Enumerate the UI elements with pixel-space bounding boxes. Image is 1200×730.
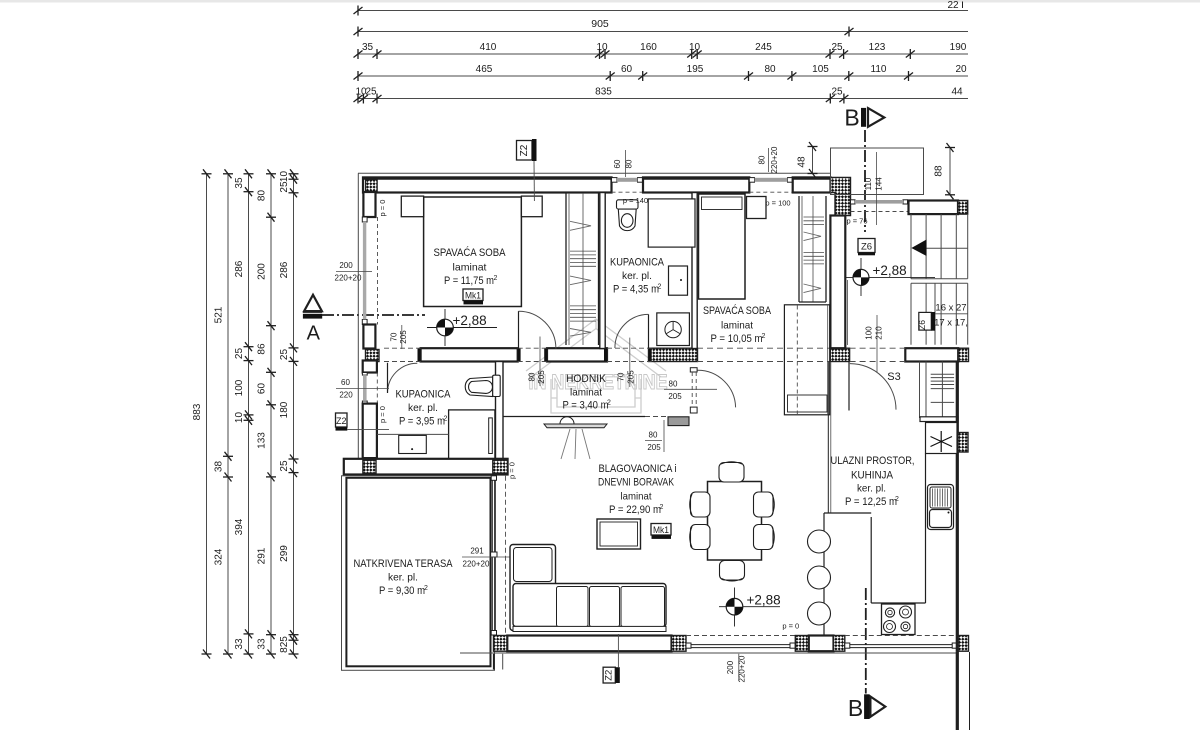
ticks row 2 — [354, 27, 363, 37]
terrace SE corner — [493, 654, 495, 670]
svg-text:60: 60 — [257, 383, 268, 395]
svg-text:p = 140: p = 140 — [623, 196, 648, 205]
svg-text:NATKRIVENA TERASA: NATKRIVENA TERASA — [354, 558, 454, 570]
window bedroom2 top — [749, 178, 792, 193]
svg-text:60: 60 — [621, 64, 633, 75]
stairwell verticals lower — [910, 283, 912, 344]
hatch east boiler — [958, 433, 968, 453]
svg-text:2: 2 — [895, 496, 899, 503]
window bathroom1 top — [612, 178, 644, 193]
closet entry — [784, 305, 829, 415]
dining chair left1 — [691, 492, 711, 517]
section marker B top — [844, 105, 884, 131]
svg-text:KUHINJA: KUHINJA — [851, 470, 894, 482]
hatch terrace wall W — [363, 460, 376, 473]
dim 200 220+20 south — [738, 654, 740, 681]
svg-text:180: 180 — [279, 401, 290, 418]
level marker bedroom1 — [427, 309, 497, 346]
toilet bathroom2 — [465, 375, 500, 396]
svg-text:10: 10 — [234, 412, 245, 424]
svg-text:200: 200 — [339, 261, 353, 270]
door jambs wall B — [418, 349, 652, 362]
svg-text:2: 2 — [660, 504, 664, 511]
hatch terrace wall E — [493, 460, 508, 473]
svg-text:394: 394 — [234, 518, 245, 535]
watermark house logo — [526, 319, 666, 413]
wall B segment stairwell — [905, 348, 958, 361]
ticks row 5 — [354, 94, 363, 104]
level marker stairs — [845, 258, 935, 296]
svg-text:2: 2 — [607, 400, 611, 407]
svg-text:33: 33 — [257, 638, 268, 650]
svg-text:324: 324 — [214, 548, 225, 565]
dining chair top — [719, 463, 744, 483]
window living south — [686, 643, 691, 648]
ticks row 4 — [354, 71, 363, 81]
window entry north — [851, 200, 908, 212]
ticks left line 5 — [289, 169, 299, 178]
wall west upper block — [363, 192, 375, 217]
door bathroom1 — [615, 314, 649, 348]
hatch entry north — [958, 201, 968, 215]
svg-text:883: 883 — [192, 403, 203, 420]
top dimension line row 3 — [358, 53, 969, 55]
svg-text:p = 76: p = 76 — [846, 217, 867, 226]
bar stool 1 — [808, 530, 831, 553]
stair below treads — [931, 373, 954, 375]
svg-text:Z2: Z2 — [519, 144, 530, 156]
outer face line top — [358, 172, 831, 174]
sink bathroom1 — [669, 266, 688, 295]
wall B segment bedroom1 — [421, 348, 518, 361]
svg-text:123: 123 — [869, 42, 886, 53]
svg-text:110: 110 — [864, 177, 873, 190]
svg-text:220+20: 220+20 — [463, 560, 490, 569]
window bathroom2 west — [362, 373, 377, 404]
wall B dashes entry door — [850, 347, 906, 349]
section line A — [322, 314, 425, 316]
ticks row 1 — [354, 6, 363, 16]
sink bathroom2 — [399, 435, 427, 453]
label Z2 top — [517, 141, 533, 161]
svg-text:p = 0: p = 0 — [378, 406, 387, 423]
svg-text:80: 80 — [758, 155, 767, 164]
svg-text:16 x 27: 16 x 27 — [935, 303, 966, 314]
shower bathroom2 — [449, 410, 495, 459]
bed bedroom2 — [699, 194, 746, 299]
stair landing lines — [911, 278, 968, 280]
svg-text:p = 100: p = 100 — [765, 199, 790, 208]
dining chair left2 — [691, 525, 711, 550]
opening line hodnik-living — [503, 416, 645, 418]
wall lines below south — [956, 651, 959, 730]
svg-text:35: 35 — [234, 177, 245, 189]
svg-text:35: 35 — [362, 42, 374, 53]
svg-text:S3: S3 — [887, 371, 900, 383]
dim 60 80 bathroom window — [625, 150, 627, 177]
svg-text:Z6: Z6 — [861, 242, 872, 253]
hatch wall B stairwell E — [958, 348, 968, 361]
window bedroom1 west — [362, 217, 377, 325]
svg-text:Z2: Z2 — [604, 670, 615, 681]
wall S hatch c — [795, 636, 809, 652]
partition bedroom1-bathroom1 — [600, 193, 605, 349]
stair arrow tail — [926, 247, 968, 249]
stair below verticals — [919, 362, 921, 419]
left dimension line 5 — [293, 174, 295, 654]
nightstand right — [521, 196, 542, 217]
closet bedroom2 — [798, 196, 800, 302]
svg-text:laminat: laminat — [453, 262, 487, 274]
svg-text:KUPAONICA: KUPAONICA — [610, 257, 665, 269]
dim 80 205 stub — [663, 420, 665, 452]
svg-text:291: 291 — [470, 547, 484, 556]
svg-text:laminat: laminat — [570, 387, 602, 399]
svg-text:60: 60 — [613, 159, 622, 168]
svg-text:ker. pl.: ker. pl. — [388, 572, 418, 584]
wall S hatch d — [834, 636, 845, 652]
top dimension line row 4 — [358, 75, 969, 77]
svg-text:P = 12,25 m: P = 12,25 m — [845, 496, 897, 508]
label Z2 bottom — [617, 634, 619, 667]
wall top segment west — [363, 177, 612, 192]
nightstand bedroom2 — [747, 197, 767, 219]
top dimension line row 5 — [358, 98, 969, 100]
outer face line south — [460, 652, 957, 654]
wall entry north segment — [909, 201, 959, 215]
svg-text:BLAGOVAONICA i: BLAGOVAONICA i — [599, 463, 677, 475]
svg-text:P = 22,90 m: P = 22,90 m — [609, 504, 661, 516]
svg-text:Z6: Z6 — [917, 320, 927, 330]
svg-text:80: 80 — [764, 64, 776, 75]
wall stub hodnik — [668, 417, 689, 426]
svg-text:220+20: 220+20 — [770, 146, 779, 173]
door bedroom1 — [519, 311, 556, 348]
svg-text:825: 825 — [279, 636, 290, 653]
svg-text:Mk1: Mk1 — [653, 525, 669, 536]
svg-text:SPAVAĆA SOBA: SPAVAĆA SOBA — [703, 304, 772, 317]
wall west mid block — [363, 325, 375, 349]
svg-text:220: 220 — [339, 391, 353, 400]
svg-text:DNEVNI BORAVAK: DNEVNI BORAVAK — [598, 477, 675, 489]
label Z6 stairs — [919, 312, 932, 330]
svg-text:p = 0: p = 0 — [508, 462, 517, 479]
svg-text:25: 25 — [279, 460, 290, 472]
svg-text:Z2: Z2 — [336, 416, 347, 426]
bar stool 3 — [808, 602, 831, 625]
svg-text:B: B — [844, 105, 859, 131]
ticks left line 2 — [223, 169, 233, 178]
svg-text:80: 80 — [669, 380, 678, 389]
svg-text:P = 3,95 m: P = 3,95 m — [399, 416, 445, 428]
entry door — [848, 362, 850, 411]
svg-text:835: 835 — [595, 87, 612, 98]
left dimension line 4 — [270, 174, 272, 654]
sofa chaise — [510, 545, 556, 631]
bed bedroom1 — [424, 197, 522, 307]
svg-text:299: 299 — [279, 545, 290, 562]
svg-text:86: 86 — [257, 343, 268, 355]
wall S segment living — [507, 636, 671, 652]
wall top thick border — [363, 177, 612, 180]
svg-text:70: 70 — [390, 332, 399, 341]
svg-text:P = 4,35 m: P = 4,35 m — [613, 284, 659, 296]
svg-text:p = 0: p = 0 — [378, 200, 387, 217]
wall S segment mid — [809, 636, 834, 652]
wall bedroom2-entry — [830, 216, 845, 349]
svg-text:80: 80 — [625, 159, 634, 168]
svg-text:80: 80 — [257, 190, 268, 202]
svg-text:+2,88: +2,88 — [873, 263, 907, 278]
svg-text:465: 465 — [476, 64, 493, 75]
terrace outline — [342, 476, 495, 671]
svg-text:Mk1: Mk1 — [465, 291, 481, 302]
sofa seats — [513, 584, 666, 627]
dim 70 205 hodnik e — [629, 338, 631, 387]
closet bedroom1 — [565, 193, 567, 345]
svg-text:105: 105 — [812, 64, 829, 75]
svg-text:2: 2 — [762, 333, 766, 340]
hatch west at wallB — [366, 350, 380, 362]
stair arrow head — [911, 240, 926, 257]
svg-text:25: 25 — [365, 87, 377, 98]
dim 80 205 hodnik w — [539, 337, 541, 387]
section line B lower — [865, 588, 867, 694]
wall B dashes door openings — [384, 347, 421, 349]
svg-text:2: 2 — [444, 416, 448, 423]
dim 70 205 door1 — [401, 325, 403, 349]
terrace north wall — [344, 459, 508, 475]
svg-text:190: 190 — [950, 42, 967, 53]
kitchen counter — [925, 454, 927, 604]
svg-text:ker. pl.: ker. pl. — [857, 483, 886, 495]
dining chair bottom — [720, 561, 745, 581]
svg-text:220+20: 220+20 — [738, 655, 747, 682]
outer face line left — [357, 173, 359, 459]
svg-text:110: 110 — [871, 64, 887, 75]
wall west lower block — [363, 404, 377, 459]
svg-text:P = 11,75 m: P = 11,75 m — [444, 275, 494, 287]
washing machine bathroom1 — [657, 313, 690, 346]
svg-text:60: 60 — [341, 378, 350, 387]
dining chair right1 — [754, 492, 774, 517]
label Mk1 living — [651, 524, 671, 536]
dining chair right2 — [754, 525, 774, 550]
svg-text:22: 22 — [947, 0, 959, 11]
wall top segment mid — [643, 177, 749, 192]
svg-text:205: 205 — [537, 370, 546, 384]
door bathroom2 — [388, 363, 418, 393]
label Z6 top — [858, 239, 875, 253]
nightstand left — [401, 196, 423, 217]
svg-text:286: 286 — [234, 260, 245, 277]
svg-text:100: 100 — [234, 379, 245, 396]
top dimension line row 1 — [358, 10, 969, 12]
svg-text:2: 2 — [658, 284, 662, 291]
boundary entry-dining — [827, 362, 829, 513]
hatch wall B entry — [830, 348, 849, 361]
stairwell verticals upper — [910, 214, 912, 279]
svg-text:10: 10 — [596, 42, 608, 53]
wall west bathroom2 block — [363, 361, 377, 373]
svg-text:p = 0: p = 0 — [782, 622, 799, 631]
svg-text:200: 200 — [726, 660, 735, 674]
svg-text:291: 291 — [257, 547, 268, 564]
svg-text:44: 44 — [951, 87, 963, 98]
svg-text:ker. pl.: ker. pl. — [408, 402, 438, 414]
svg-text:286: 286 — [279, 261, 290, 278]
coffee table — [597, 519, 641, 549]
wall top segment east — [793, 177, 831, 192]
stair bottom step bar — [920, 417, 958, 422]
svg-text:25: 25 — [279, 349, 290, 361]
canopy outline — [831, 148, 924, 195]
hatch wall B bath1 — [649, 348, 698, 361]
left dimension line 1 — [206, 174, 208, 654]
dim 100 210 entry — [876, 315, 878, 372]
left dimension line 2 — [227, 174, 229, 654]
svg-text:10: 10 — [689, 42, 701, 53]
svg-text:144: 144 — [875, 177, 884, 191]
svg-text:195: 195 — [687, 64, 704, 75]
left dimension line 3 — [248, 174, 250, 654]
svg-text:88: 88 — [934, 165, 945, 177]
svg-text:205: 205 — [399, 330, 408, 344]
ticks row 3 — [354, 49, 363, 59]
label Mk1 bedroom — [463, 289, 483, 301]
svg-text:38: 38 — [214, 461, 225, 473]
wall east kitchen — [956, 362, 959, 652]
dim 88 vertical — [949, 148, 951, 195]
svg-text:A: A — [307, 323, 321, 345]
level marker living — [719, 588, 780, 627]
sofa back bar — [513, 626, 666, 631]
svg-text:205: 205 — [627, 370, 636, 384]
svg-text:25: 25 — [234, 348, 245, 360]
kitchen sink — [928, 485, 954, 530]
section marker B bottom — [848, 694, 885, 721]
wall B segment mid — [547, 348, 607, 361]
dining table — [708, 482, 762, 561]
svg-text:2: 2 — [424, 585, 428, 592]
dim 110 144 labels — [876, 152, 878, 225]
top dimension line row 2 — [358, 31, 969, 33]
shower bathroom1 — [648, 199, 695, 247]
section line B upper — [864, 130, 866, 232]
door bedroom2 — [690, 368, 697, 372]
svg-text:laminat: laminat — [621, 491, 652, 503]
corner block NE — [831, 177, 851, 215]
svg-text:laminat: laminat — [721, 320, 753, 332]
boiler — [926, 423, 958, 454]
svg-text:KUPAONICA: KUPAONICA — [396, 389, 452, 401]
svg-text:80: 80 — [649, 431, 658, 440]
svg-text:25: 25 — [831, 87, 843, 98]
window kitchen south — [845, 643, 850, 648]
svg-text:25: 25 — [279, 181, 290, 193]
svg-text:410: 410 — [480, 42, 497, 53]
svg-text:2: 2 — [494, 275, 498, 282]
svg-text:210: 210 — [875, 326, 884, 340]
svg-text:905: 905 — [591, 18, 609, 30]
bar stool 2 — [808, 566, 831, 589]
section marker A — [303, 295, 322, 345]
stove — [882, 604, 916, 635]
svg-text:48: 48 — [797, 156, 808, 168]
wall bathroom2-hodnik — [496, 362, 504, 460]
ticks left line 1 — [202, 169, 212, 178]
svg-text:133: 133 — [257, 432, 268, 449]
hatch corner NW — [366, 180, 378, 193]
svg-text:220+20: 220+20 — [335, 274, 362, 283]
svg-text:100: 100 — [865, 326, 874, 340]
svg-text:+2,88: +2,88 — [747, 593, 781, 608]
tv console — [544, 424, 607, 428]
sink counter bathroom2 — [377, 433, 449, 435]
window living west — [491, 476, 496, 481]
svg-text:205: 205 — [668, 392, 682, 401]
svg-text:80: 80 — [528, 372, 537, 381]
svg-text:70: 70 — [617, 372, 626, 381]
svg-text:P = 3,40 m: P = 3,40 m — [563, 400, 609, 412]
wall S hatch b — [672, 636, 687, 652]
svg-text:10: 10 — [279, 171, 290, 183]
svg-text:ker. pl.: ker. pl. — [622, 270, 652, 282]
svg-text:205: 205 — [647, 443, 661, 452]
svg-text:ULAZNI PROSTOR,: ULAZNI PROSTOR, — [831, 455, 915, 467]
dim 48 — [812, 147, 814, 174]
svg-text:HODNIK: HODNIK — [566, 373, 607, 385]
partition bathroom1-bedroom2 — [692, 193, 697, 349]
wall S hatch e — [957, 636, 968, 652]
svg-text:160: 160 — [640, 42, 657, 53]
svg-text:SPAVAĆA SOBA: SPAVAĆA SOBA — [434, 246, 507, 259]
svg-text:521: 521 — [214, 306, 225, 323]
svg-text:200: 200 — [257, 263, 268, 280]
label Z2 west — [336, 413, 348, 427]
svg-text:17 x 17,: 17 x 17, — [934, 318, 968, 329]
svg-text:P = 10,05 m: P = 10,05 m — [711, 333, 763, 345]
svg-text:33: 33 — [234, 638, 245, 650]
wall S hatch a — [494, 636, 508, 652]
svg-text:B: B — [848, 695, 863, 721]
svg-text:245: 245 — [755, 42, 772, 53]
svg-text:25: 25 — [831, 42, 843, 53]
ticks left line 3 — [244, 169, 254, 178]
wall B dashes bedroom2 zone — [697, 347, 830, 349]
toilet bathroom1 — [617, 200, 639, 231]
svg-text:20: 20 — [955, 64, 967, 75]
svg-text:+2,88: +2,88 — [453, 313, 487, 328]
ticks left line 4 — [266, 169, 276, 178]
svg-text:P = 9,30 m: P = 9,30 m — [379, 585, 425, 597]
